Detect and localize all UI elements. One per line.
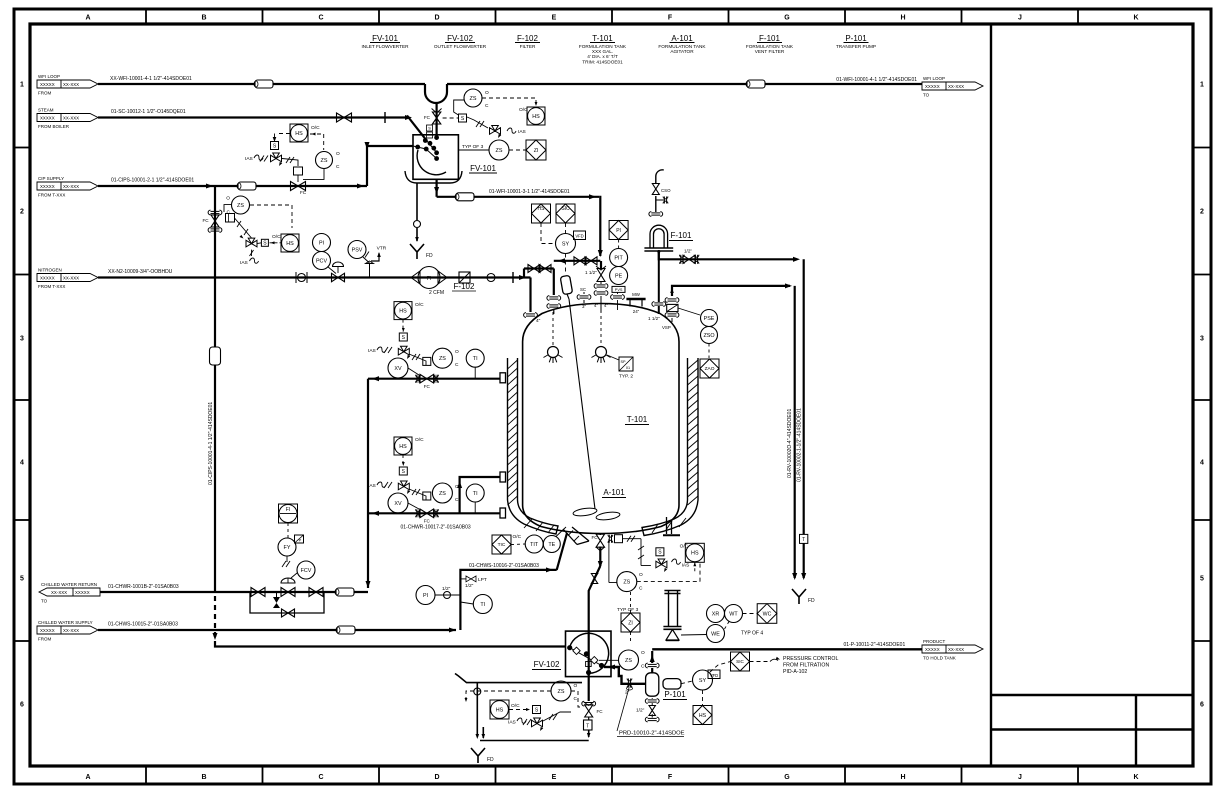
svg-text:ZSO: ZSO	[703, 333, 714, 339]
svg-text:F-102: F-102	[517, 34, 538, 43]
link ZS to solenoid box	[224, 205, 232, 212]
svg-text:5: 5	[20, 576, 24, 583]
svg-text:VENT FILTER: VENT FILTER	[755, 49, 785, 54]
solenoid valve steam cluster	[271, 142, 279, 150]
dashed PI to PIT	[618, 240, 620, 249]
svg-text:01-CHWS-10015-2"-01SA0B03: 01-CHWS-10015-2"-01SA0B03	[108, 622, 178, 628]
svg-text:PID-A-102: PID-A-102	[783, 669, 807, 675]
svg-text:TYP OF 3: TYP OF 3	[462, 144, 484, 150]
suction clamp 2in	[627, 679, 629, 688]
svg-text:FC: FC	[597, 709, 604, 714]
svg-text:K: K	[1133, 774, 1138, 781]
double block valves on manifold	[574, 257, 586, 265]
CHWR control valve	[281, 588, 295, 597]
FD funnel RV lines	[792, 589, 806, 604]
wire CIP supply line	[98, 185, 367, 187]
svg-text:TYP. 2: TYP. 2	[619, 374, 633, 380]
wire WFI drop to manifold	[599, 197, 600, 256]
svg-text:ZS: ZS	[237, 203, 244, 209]
svg-text:C: C	[318, 774, 323, 781]
outlet clamp and box	[608, 535, 610, 543]
svg-text:3": 3"	[582, 304, 586, 309]
svg-text:TIC: TIC	[498, 542, 506, 548]
position switch ZS mid	[489, 140, 509, 160]
svg-text:XXXXX: XXXXX	[75, 590, 90, 595]
pressure control note	[750, 661, 771, 663]
limit switch ZS CIP	[232, 196, 250, 214]
interlock ZI pump	[621, 613, 640, 632]
svg-text:P-101: P-101	[664, 690, 686, 699]
FV-102 box	[566, 631, 612, 677]
svg-text:TO HOLD TANK: TO HOLD TANK	[923, 656, 956, 661]
svg-text:O/C: O/C	[519, 107, 528, 113]
svg-text:01-CHWR-1001B-2"-01SA0B03: 01-CHWR-1001B-2"-01SA0B03	[108, 584, 179, 590]
tank support leg	[668, 591, 670, 626]
HS FV102 drain cluster	[490, 700, 509, 719]
clamp nozzle WFI manifold drop	[549, 296, 558, 298]
solenoid jacket bottom	[399, 467, 407, 475]
svg-text:A: A	[85, 774, 90, 781]
pump P-101 body	[646, 673, 659, 696]
svg-text:D: D	[434, 15, 439, 22]
PVS seal	[612, 286, 625, 292]
svg-text:H: H	[900, 15, 905, 22]
TI jacket top	[466, 349, 484, 367]
svg-text:G: G	[784, 774, 790, 781]
svg-text:1/2": 1/2"	[636, 708, 645, 714]
svg-text:HS: HS	[399, 444, 407, 450]
svg-text:4": 4"	[594, 303, 598, 308]
3-way valve jacket bottom	[398, 481, 409, 490]
svg-text:VFD: VFD	[575, 234, 583, 239]
svg-text:FV-101: FV-101	[470, 164, 496, 173]
svg-text:F: F	[668, 774, 673, 781]
svg-text:FC: FC	[300, 190, 307, 195]
svg-text:FY: FY	[284, 545, 291, 551]
svg-text:C: C	[318, 15, 323, 22]
svg-text:S: S	[428, 127, 431, 131]
FD funnel FV-102 drains	[471, 748, 485, 763]
svg-text:IAS: IAS	[682, 563, 690, 569]
svg-text:C: C	[336, 164, 340, 170]
dashed ZS right to HS2	[250, 205, 292, 228]
PSV relief	[348, 241, 366, 259]
svg-text:FROM BOILER: FROM BOILER	[38, 124, 70, 129]
bypass valve	[282, 609, 295, 617]
steam line arrow and diagonal into FV-101	[405, 115, 412, 120]
svg-text:FROM T-XXX: FROM T-XXX	[38, 193, 65, 198]
jacket mid connector and riser	[500, 472, 506, 482]
solenoid small box CIP2	[226, 214, 235, 223]
svg-text:ZS: ZS	[496, 148, 503, 154]
svg-text:O/C: O/C	[415, 437, 424, 443]
svg-text:TRANSFER PUMP: TRANSFER PUMP	[836, 44, 876, 49]
tank jacket right wall	[687, 358, 689, 500]
vessel T-101 shell	[523, 304, 679, 534]
svg-text:FV-102: FV-102	[447, 34, 473, 43]
svg-text:WE: WE	[711, 631, 720, 637]
wire CHWR line	[100, 591, 368, 593]
coupling on WFI line	[255, 80, 273, 88]
svg-text:01-WFI-10001-4-1 1/2"-414SDOE0: 01-WFI-10001-4-1 1/2"-414SDOE01	[836, 77, 917, 83]
PI diamond top	[609, 221, 628, 240]
svg-text:4": 4"	[604, 303, 608, 308]
title block panel divider	[990, 24, 992, 766]
weight element WE	[707, 625, 725, 643]
svg-text:SP: SP	[620, 360, 626, 364]
nitrogen manifold segment	[524, 267, 554, 269]
svg-text:XXXXX: XXXXX	[40, 82, 55, 87]
svg-text:PI: PI	[616, 228, 621, 234]
steam trap T box	[584, 720, 593, 730]
TIC controller	[492, 535, 511, 554]
drip tray bracket under FV-101	[405, 171, 462, 183]
CHWR block valve 2	[309, 588, 323, 597]
dashed HS right to ZS steam cluster	[310, 133, 324, 135]
svg-text:XX-XXX: XX-XXX	[63, 184, 79, 189]
svg-text:NITROGEN: NITROGEN	[38, 268, 62, 273]
svg-text:O/C: O/C	[513, 534, 522, 540]
inline tick nitrogen	[512, 272, 514, 283]
FV-101 internal dots	[416, 145, 420, 149]
svg-text:K: K	[1133, 15, 1138, 22]
FV-101 box	[413, 135, 458, 180]
svg-text:O: O	[336, 151, 340, 157]
solenoid outlet cluster	[656, 548, 664, 556]
svg-text:XX-XXX: XX-XXX	[63, 82, 79, 87]
svg-text:ZS: ZS	[439, 491, 446, 497]
FC valve below FV-102	[585, 705, 593, 717]
T trap box on RV line	[800, 534, 808, 543]
svg-text:FI: FI	[286, 507, 290, 513]
dashed to ZI interlock	[509, 149, 527, 151]
svg-text:PVS: PVS	[615, 288, 623, 292]
svg-text:01-RV-10002-1-1/2"-414SDOE01: 01-RV-10002-1-1/2"-414SDOE01	[797, 408, 803, 482]
svg-text:TO: TO	[923, 93, 930, 98]
svg-text:O: O	[226, 196, 230, 202]
valve on steam line	[337, 113, 352, 122]
tubing box to 3-way CIP2	[235, 218, 252, 238]
3-way valve steam cluster	[271, 153, 282, 162]
PCV valve body	[332, 273, 345, 281]
svg-text:T-101: T-101	[627, 415, 648, 424]
svg-text:O: O	[574, 683, 578, 689]
svg-text:XR: XR	[712, 611, 720, 617]
svg-text:O/C: O/C	[272, 234, 281, 240]
svg-text:PRD-10010-2"-414SDOE: PRD-10010-2"-414SDOE	[619, 731, 685, 737]
rupture disc VSP	[667, 304, 678, 311]
svg-text:FROM T-XXX: FROM T-XXX	[38, 284, 65, 289]
svg-text:ZAO: ZAO	[705, 366, 715, 372]
thin link ZS to chain	[599, 659, 619, 661]
svg-text:O/C: O/C	[680, 543, 689, 549]
svg-text:D: D	[434, 774, 439, 781]
svg-text:C: C	[641, 664, 645, 670]
svg-text:F-101: F-101	[671, 231, 692, 240]
pump motor	[663, 679, 681, 689]
jacket drain stub right	[666, 517, 668, 534]
title block rows	[991, 694, 1193, 696]
svg-text:FV-101: FV-101	[372, 34, 398, 43]
steam diagonal into FV-101	[407, 116, 427, 142]
ball valve nitrogen 2	[487, 274, 495, 282]
coupling WFI outlet	[456, 193, 474, 201]
svg-text:O: O	[639, 572, 643, 578]
hand switch HS FV101	[527, 107, 545, 125]
trap discharge to funnel	[588, 730, 590, 737]
grid column ticks	[145, 11, 147, 25]
svg-text:O/C: O/C	[511, 703, 520, 709]
3-way valve jacket top	[398, 346, 409, 355]
svg-text:TIT: TIT	[530, 542, 539, 548]
svg-text:XXXXX: XXXXX	[925, 647, 940, 652]
svg-text:SY: SY	[699, 678, 707, 684]
TIT transmitter	[525, 535, 543, 553]
TI jacket bottom	[466, 484, 484, 502]
agitator motor A-101	[560, 275, 572, 294]
svg-text:WT: WT	[729, 611, 738, 617]
wire through FV-102 vertical	[588, 631, 590, 701]
XV valve jacket bottom	[388, 493, 408, 513]
ZS outlet	[617, 572, 637, 592]
TI drain line	[473, 595, 492, 614]
svg-text:INLET FLOWVERTER: INLET FLOWVERTER	[362, 44, 410, 49]
svg-text:XXXXX: XXXXX	[40, 115, 55, 120]
agitator impeller	[573, 507, 598, 517]
jacket outlet channel left	[563, 529, 577, 545]
svg-text:T-101: T-101	[592, 34, 613, 43]
wire VSP relief line	[672, 286, 790, 296]
svg-text:SIC: SIC	[736, 659, 744, 664]
svg-text:FC: FC	[591, 535, 598, 540]
svg-text:HS: HS	[538, 206, 546, 212]
pressure transmitter PIT	[610, 249, 628, 267]
svg-text:C: C	[455, 362, 459, 368]
wire CHWS line	[98, 629, 456, 631]
center nozzle clamps	[597, 284, 606, 286]
vent nozzle clamp	[654, 302, 663, 304]
svg-text:01-SC-10012-1 1/2"-O145DQE01: 01-SC-10012-1 1/2"-O145DQE01	[111, 109, 186, 115]
svg-text:FROM FILTRATION: FROM FILTRATION	[783, 663, 829, 669]
svg-text:2 CFM: 2 CFM	[429, 290, 444, 296]
half inch valve on RV line	[680, 255, 682, 264]
svg-text:01-WFI-10001-3-1 1/2"-414SDOE0: 01-WFI-10001-3-1 1/2"-414SDOE01	[489, 189, 570, 195]
svg-text:STEAM: STEAM	[38, 108, 54, 113]
svg-text:A-101: A-101	[603, 488, 625, 497]
filter F-102 inline	[459, 272, 470, 283]
HS outlet cluster	[685, 543, 704, 562]
drain drop from tray	[416, 183, 418, 220]
svg-text:TI: TI	[473, 356, 478, 362]
LPT tap	[460, 578, 466, 580]
dashed signal HS to solenoid	[276, 133, 290, 135]
arrow nitrogen end	[519, 275, 526, 280]
junction arrow CIP to drop	[206, 183, 213, 188]
coupling on CHWR after manifold	[336, 588, 354, 596]
wire CIP rise to FV-101	[367, 146, 413, 186]
svg-text:CHILLED WATER RETURN: CHILLED WATER RETURN	[41, 582, 97, 587]
CHWR bypass loop	[250, 592, 324, 613]
svg-text:FV-102: FV-102	[534, 660, 560, 669]
svg-text:CIP SUPPLY: CIP SUPPLY	[38, 176, 64, 181]
svg-text:FCV: FCV	[301, 568, 312, 574]
svg-text:E: E	[552, 774, 557, 781]
svg-text:24": 24"	[633, 309, 640, 314]
solenoid FV101 cluster	[459, 114, 467, 122]
svg-text:XX-XXX: XX-XXX	[63, 115, 79, 120]
svg-text:FD: FD	[487, 757, 494, 763]
svg-text:FC: FC	[424, 115, 431, 120]
CHWR block valve 1	[251, 588, 265, 597]
svg-text:O: O	[455, 349, 459, 355]
wire jacket supply top	[368, 378, 500, 380]
nozzle 3in with SC	[580, 295, 589, 297]
svg-text:PE: PE	[615, 273, 623, 279]
jacket top connector	[500, 373, 506, 383]
svg-text:OUTLET FLOWVERTER: OUTLET FLOWVERTER	[434, 44, 487, 49]
clamp above filter	[651, 212, 660, 214]
dashed ZS drain links	[466, 691, 551, 700]
svg-text:ZS: ZS	[623, 579, 630, 585]
dashed motor to SY	[681, 681, 693, 684]
svg-text:F: F	[668, 15, 673, 22]
vent gooseneck	[656, 170, 664, 176]
svg-text:WFI LOOP: WFI LOOP	[38, 74, 60, 79]
jacket hatching	[508, 360, 518, 369]
wire CIP vertical drop	[214, 186, 216, 592]
svg-text:3: 3	[20, 336, 24, 343]
svg-text:PRODUCT: PRODUCT	[923, 639, 946, 644]
manway MW	[626, 298, 645, 301]
CIP control valve FC	[291, 182, 306, 191]
svg-text:XXXXX: XXXXX	[40, 275, 55, 280]
tank outlet FC valve	[596, 534, 604, 547]
spray ball right	[600, 310, 602, 345]
svg-text:C: C	[455, 497, 459, 503]
center nozzle FC valve	[597, 269, 605, 282]
dashed to ZAO interlock	[708, 344, 710, 359]
svg-text:J: J	[1018, 15, 1022, 22]
svg-text:MW: MW	[632, 292, 641, 297]
svg-text:HS: HS	[691, 551, 699, 557]
tank jacket left wall	[507, 358, 509, 500]
ZS jacket bottom	[432, 483, 452, 503]
interlock ZI FV101	[526, 140, 546, 160]
svg-text:PSV: PSV	[352, 247, 363, 253]
drain header under FV-102	[455, 674, 582, 683]
pressure element PE	[610, 267, 628, 285]
svg-text:FC: FC	[424, 384, 431, 389]
svg-text:XXXXX: XXXXX	[40, 184, 55, 189]
solenoid jacket top	[399, 333, 407, 341]
svg-text:01-CIPS-10001-2-1 1/2"-414SDOE: 01-CIPS-10001-2-1 1/2"-414SDOE01	[111, 178, 194, 184]
svg-text:WC: WC	[763, 611, 772, 617]
clamp nitrogen nozzle	[526, 313, 535, 315]
svg-text:VTR: VTR	[377, 246, 387, 252]
svg-text:J: J	[1018, 774, 1022, 781]
svg-text:TE: TE	[548, 542, 555, 548]
svg-text:A: A	[85, 15, 90, 22]
svg-text:TO: TO	[41, 599, 48, 604]
solenoid CIP2	[261, 239, 268, 246]
svg-text:FROM: FROM	[38, 91, 51, 96]
solenoid FV102 drain	[533, 706, 541, 714]
coupling on CIP line	[238, 182, 256, 190]
svg-text:O/C: O/C	[311, 125, 320, 131]
svg-text:ZS: ZS	[439, 356, 446, 362]
FY converter	[278, 538, 296, 556]
svg-text:XX-N2-10009-3/4"-OOBHDU: XX-N2-10009-3/4"-OOBHDU	[108, 269, 173, 275]
FD funnel FV-101 drain	[410, 244, 424, 259]
svg-text:1 1/2": 1 1/2"	[648, 316, 660, 321]
svg-text:01-CHWR-10017-2"-01SA0B03: 01-CHWR-10017-2"-01SA0B03	[401, 525, 471, 531]
svg-text:F-102: F-102	[454, 282, 475, 291]
coupling CHWS	[337, 626, 355, 634]
svg-text:SY: SY	[562, 241, 570, 247]
svg-text:2: 2	[1200, 209, 1204, 216]
svg-text:FD: FD	[426, 253, 433, 259]
ZS FV102 drain cluster	[551, 681, 571, 701]
svg-text:4: 4	[1200, 460, 1204, 467]
block valves nitrogen manifold	[528, 265, 540, 273]
flow indicator FI square	[279, 504, 298, 523]
wire RV line 1 drop	[803, 259, 805, 578]
FV-101 internal connect lines	[427, 141, 437, 153]
svg-text:FC: FC	[424, 519, 431, 524]
dashed HS to solenoid	[509, 709, 528, 711]
wire vertical through FV-101	[436, 103, 438, 135]
WC interlock	[757, 604, 777, 624]
svg-text:T: T	[802, 537, 805, 543]
dashed ZS to HS	[482, 98, 536, 105]
svg-text:IAS: IAS	[245, 156, 253, 162]
svg-text:O: O	[485, 90, 489, 96]
svg-text:6: 6	[1200, 702, 1204, 709]
svg-text:TI: TI	[473, 491, 478, 497]
tubing to CIP valve positioner	[286, 157, 290, 163]
svg-text:1: 1	[1200, 82, 1204, 89]
svg-text:ZI: ZI	[534, 148, 539, 154]
DCS HS agitator	[532, 204, 551, 223]
svg-text:TI: TI	[480, 602, 485, 608]
wire RV line 2 drop	[794, 286, 796, 578]
svg-text:C: C	[639, 586, 643, 592]
vent filter F-101	[650, 225, 668, 248]
svg-text:5: 5	[1200, 576, 1204, 583]
svg-text:WFI LOOP: WFI LOOP	[923, 76, 945, 81]
wire manifold drop	[553, 269, 555, 296]
wire vent filter drain to RV header	[659, 252, 797, 259]
svg-text:FROM: FROM	[38, 637, 51, 642]
FV-101 internal arc	[417, 150, 446, 175]
wire WFI loop line	[98, 83, 425, 85]
wire jacket return header vertical	[367, 379, 369, 588]
svg-text:C: C	[574, 696, 578, 702]
svg-text:6: 6	[20, 702, 24, 709]
coupling on WFI line 2	[747, 80, 765, 88]
spray ball left	[552, 312, 554, 345]
position switch ZS steam cluster	[316, 152, 333, 169]
svg-text:CSO: CSO	[661, 188, 671, 193]
svg-text:HS: HS	[496, 707, 504, 713]
svg-text:FD: FD	[808, 598, 815, 604]
SY pump speed	[693, 670, 713, 690]
svg-text:4": 4"	[536, 318, 541, 324]
svg-text:P: P	[299, 538, 302, 543]
product riser	[651, 668, 653, 673]
svg-text:01-P-10011-2"-414SDOE01: 01-P-10011-2"-414SDOE01	[844, 642, 906, 648]
3-way outlet cluster	[656, 559, 667, 568]
